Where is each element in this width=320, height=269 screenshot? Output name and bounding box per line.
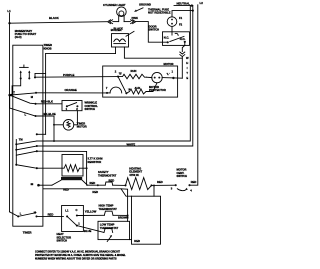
svg-text:(N-O): (N-O) xyxy=(15,35,22,39)
high temp thermostat xyxy=(99,204,118,211)
svg-text:NUMBERS WHEN WRITING ABOUT THI: NUMBERS WHEN WRITING ABOUT THIS DRYER OR… xyxy=(35,258,117,261)
timer box xyxy=(13,45,43,226)
wire neutral outer vertical / white return xyxy=(43,6,193,146)
wrinkle control switch box xyxy=(62,101,82,111)
start switch right contact xyxy=(28,72,30,79)
svg-text:ORANGE: ORANGE xyxy=(65,88,77,92)
motor switch arm xyxy=(118,77,126,94)
timer cam arm to bk-blue xyxy=(10,95,36,116)
svg-text:4750 W.: 4750 W. xyxy=(129,173,139,177)
resistor 3.77k box xyxy=(62,155,83,177)
svg-text:L1: L1 xyxy=(65,208,69,212)
wire fuse to neutral xyxy=(172,11,193,17)
timer bottom contact xyxy=(17,215,19,217)
svg-text:F2: F2 xyxy=(179,23,183,27)
svg-text:THERMOSTAT: THERMOSTAT xyxy=(99,207,118,211)
wire resistor out xyxy=(80,167,87,169)
svg-text:RED: RED xyxy=(109,178,115,182)
svg-text:PINK: PINK xyxy=(132,16,138,20)
wire blue xyxy=(77,226,104,233)
low temp thermostat box xyxy=(98,221,130,239)
heat selector switch box xyxy=(62,206,84,232)
svg-text:BUZZER: BUZZER xyxy=(111,28,122,32)
svg-text:RED: RED xyxy=(92,190,98,194)
svg-text:KNOB: KNOB xyxy=(44,46,52,50)
heating element xyxy=(129,166,142,176)
svg-text:NOT RESETABLE: NOT RESETABLE xyxy=(148,11,171,15)
terminal letters mid timer xyxy=(13,90,34,116)
label white xyxy=(126,142,138,145)
wire brown xyxy=(113,214,128,216)
motor protector xyxy=(152,72,162,82)
svg-text:GROUND: GROUND xyxy=(139,3,151,7)
link low stat box to loop xyxy=(130,239,132,241)
svg-text:NEUTRAL: NEUTRAL xyxy=(177,1,191,5)
door switch label xyxy=(149,24,160,31)
svg-text:F1: F1 xyxy=(179,16,183,20)
svg-text:THERMOSTAT: THERMOSTAT xyxy=(100,226,119,230)
wire to lamp left leg xyxy=(113,21,119,23)
svg-text:SWITCH: SWITCH xyxy=(177,174,188,178)
wire red-blk xyxy=(36,103,63,105)
svg-text:RED: RED xyxy=(63,187,69,191)
wire buzzer right lead to door switch line xyxy=(124,47,182,58)
wire black top xyxy=(10,22,107,24)
wire timer motor line xyxy=(37,140,43,142)
centrifugal actuator hump xyxy=(110,87,122,93)
wire start left contact to L1 xyxy=(10,78,21,95)
door switch arm xyxy=(171,32,173,35)
thermal fuse label xyxy=(148,7,171,14)
wire neutral inner vertical to timer motor line xyxy=(43,6,190,141)
wire lamp right leg xyxy=(124,21,130,23)
wire timer bottom to heater rail xyxy=(37,184,40,187)
svg-text:BK-BLUE: BK-BLUE xyxy=(44,112,56,116)
svg-text:RESISTOR: RESISTOR xyxy=(88,160,102,164)
timer cam arm to orange xyxy=(10,93,36,95)
svg-text:PURPLE: PURPLE xyxy=(63,73,74,77)
svg-text:RED: RED xyxy=(134,239,140,243)
door switch box xyxy=(163,32,190,46)
wire orange xyxy=(36,92,107,94)
wire timer exit A to buzzer bus xyxy=(37,133,46,135)
timer knob label xyxy=(44,43,52,50)
wire element stub into loop xyxy=(153,186,155,197)
svg-text:E: E xyxy=(186,76,188,80)
wire timer exit C to resistor bypass xyxy=(37,151,87,185)
wire purple xyxy=(36,76,118,79)
svg-text:L2: L2 xyxy=(200,1,204,5)
wire timer motor left lead xyxy=(54,124,63,126)
svg-text:'L': 'L' xyxy=(167,72,170,76)
wire timer to heat selector xyxy=(37,215,64,217)
motor terminal 2 B xyxy=(115,69,123,75)
label white vertical xyxy=(186,56,189,80)
motor box xyxy=(103,66,178,97)
start switch left contact xyxy=(20,72,22,79)
node junction on L1 mid xyxy=(8,94,11,97)
wire timer exit D to resistor xyxy=(37,167,64,169)
svg-text:SWITCH: SWITCH xyxy=(149,28,160,32)
connector break right of lamp xyxy=(131,20,134,24)
wire element to cent switch xyxy=(152,184,176,186)
svg-text:MOTOR: MOTOR xyxy=(164,62,174,66)
thermal fuse F1 F2 xyxy=(167,17,177,27)
svg-text:C: C xyxy=(76,208,78,212)
timer motor xyxy=(63,120,74,131)
node junction L1/black xyxy=(8,22,10,24)
svg-text:L1: L1 xyxy=(7,9,11,13)
svg-text:YELLOW: YELLOW xyxy=(85,210,97,214)
svg-text:MOTOR: MOTOR xyxy=(77,125,87,129)
svg-text:RED-BLK: RED-BLK xyxy=(41,100,53,104)
svg-text:SWITCH: SWITCH xyxy=(57,239,68,243)
svg-text:'B': 'B' xyxy=(119,71,123,75)
svg-text:BROWN: BROWN xyxy=(118,216,129,220)
connector break left of lamp xyxy=(108,20,111,24)
svg-text:TIMER: TIMER xyxy=(23,231,32,235)
svg-text:RED: RED xyxy=(157,180,163,184)
wire start-switch bus to buzzer xyxy=(46,53,116,55)
wire white line left end xyxy=(37,145,43,147)
svg-text:BLUE: BLUE xyxy=(84,229,92,233)
momentary push to start label xyxy=(15,29,37,39)
wire brown down to loop bottom xyxy=(127,215,129,221)
wire yellow xyxy=(77,214,104,216)
push to start button xyxy=(20,66,29,68)
motor terminal 1 L xyxy=(167,69,174,75)
svg-text:N.C.: N.C. xyxy=(164,35,170,39)
svg-text:H: H xyxy=(186,61,188,65)
wire bk-blue xyxy=(36,116,55,141)
wire L2 vertical xyxy=(190,5,198,185)
wire L1 vertical xyxy=(9,13,11,212)
svg-text:RED: RED xyxy=(48,213,54,217)
arrow into low stat xyxy=(107,236,111,242)
motor centrifugal switch 3-4 xyxy=(177,168,188,178)
wire wrinkle switch to timer motor xyxy=(74,111,78,125)
svg-text:BLACK: BLACK xyxy=(49,16,59,20)
safety thermostat xyxy=(98,170,117,177)
svg-text:CYLINDER LIGHT: CYLINDER LIGHT xyxy=(103,3,126,7)
wire stat to element xyxy=(113,184,126,186)
timer cam arm to red-blk xyxy=(10,95,36,104)
svg-text:RED: RED xyxy=(191,180,197,184)
wire fuse to door switch xyxy=(171,26,173,31)
wire L1 into bottom contact xyxy=(10,212,19,217)
wire V to thermostat loop xyxy=(43,189,128,216)
svg-text:WHITE: WHITE xyxy=(127,142,136,146)
start switch output contact xyxy=(34,76,36,78)
low temp thermostat xyxy=(104,228,113,232)
svg-text:SWITCH: SWITCH xyxy=(85,107,96,111)
svg-text:THERMOSTAT: THERMOSTAT xyxy=(98,173,117,177)
svg-text:RUN: RUN xyxy=(131,69,137,73)
big red loop rectangle xyxy=(132,196,161,244)
svg-text:RED: RED xyxy=(90,181,96,185)
wire buzzer left lead xyxy=(115,47,117,54)
wire door switch N.O. down with plug break xyxy=(184,42,186,46)
